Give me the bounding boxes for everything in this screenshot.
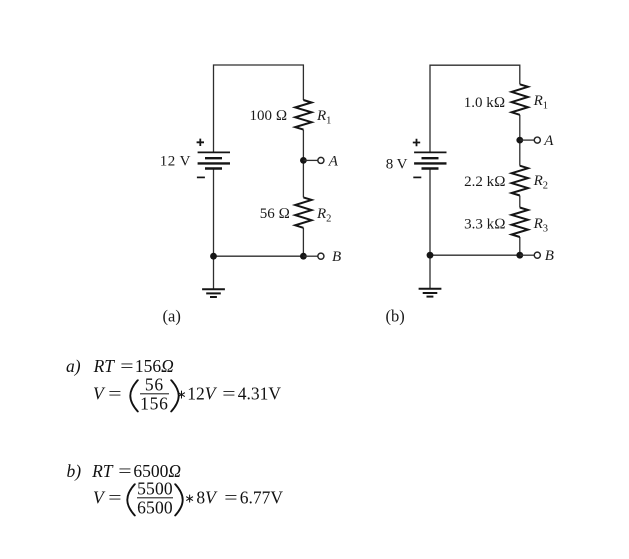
node A b: terminal circle — [534, 137, 540, 143]
wire battery to bottom node b — [429, 169, 431, 255]
svg-text:56 Ω: 56 Ω — [260, 206, 290, 222]
svg-text:A: A — [543, 133, 554, 149]
wire top loop a — [214, 65, 304, 152]
node B a: stub wire — [303, 255, 317, 257]
resistor R2 a 56ohm — [295, 197, 311, 227]
resistor R3 b 3.3k — [512, 208, 528, 238]
svg-text:12 V: 12 V — [160, 154, 191, 170]
bottom junction dot a — [210, 253, 217, 260]
svg-text:8 V: 8 V — [386, 157, 408, 173]
plus sign battery b — [413, 139, 420, 146]
plus sign battery a — [197, 139, 204, 146]
ground b — [419, 289, 442, 297]
svg-text:1.0 kΩ: 1.0 kΩ — [464, 95, 506, 111]
svg-text:3.3 kΩ: 3.3 kΩ — [464, 217, 506, 233]
svg-text:(a): (a) — [163, 307, 181, 326]
wire ground stem b — [429, 255, 431, 288]
solution line a1: a) RT = 156ohm — [66, 358, 174, 376]
node B b: stub wire — [520, 254, 534, 256]
wire R3 to node B b — [519, 237, 521, 255]
wire top loop b — [430, 65, 520, 152]
wire battery to bottom node a — [213, 169, 215, 256]
resistor R2 b 2.2k — [512, 166, 528, 196]
svg-text:R1: R1 — [316, 108, 331, 127]
node A a: stub wire — [303, 159, 317, 161]
node B a: junction dot — [300, 253, 307, 260]
resistor R1 a 100ohm — [295, 100, 311, 130]
wire bottom b — [430, 254, 520, 256]
node A b: stub wire — [520, 139, 534, 141]
node B b: terminal circle — [534, 252, 540, 258]
node B a: terminal circle — [318, 253, 324, 259]
node B b: junction dot — [516, 252, 523, 259]
battery BT1 12V — [198, 152, 230, 168]
node A b: junction dot — [516, 137, 523, 144]
svg-text:B: B — [545, 248, 554, 264]
svg-text:R2: R2 — [316, 206, 331, 225]
battery BT2 8V — [414, 152, 446, 168]
svg-text:(b): (b) — [386, 307, 405, 326]
node A a: junction dot — [300, 157, 307, 164]
svg-text:R2: R2 — [533, 173, 548, 192]
solution line b2: V = (5500/6500)*8V = 6.77V — [93, 479, 283, 516]
svg-text:A: A — [328, 154, 339, 170]
wire R2 to node B a — [302, 228, 304, 256]
wire ground stem a — [213, 256, 215, 289]
wire R1 to R2 a — [302, 130, 304, 198]
wire bottom a — [214, 255, 304, 257]
svg-text:R3: R3 — [533, 216, 548, 235]
svg-text:100 Ω: 100 Ω — [250, 108, 288, 124]
wire R1 to node A b — [519, 115, 521, 166]
svg-text:B: B — [332, 249, 341, 265]
solution line b1: b) RT = 6500ohm — [67, 463, 182, 481]
bottom junction dot b — [427, 252, 434, 259]
svg-text:2.2 kΩ: 2.2 kΩ — [464, 174, 506, 190]
node A a: terminal circle — [318, 157, 324, 163]
wire R2 to R3 b — [519, 196, 521, 208]
minus sign battery a — [197, 176, 205, 178]
svg-text:R1: R1 — [533, 93, 548, 112]
minus sign battery b — [413, 176, 421, 178]
ground a — [202, 289, 225, 297]
solution line a2: V = (56/156)*12V = 4.31V — [93, 375, 281, 412]
resistor R1 b 1.0k — [512, 84, 528, 115]
